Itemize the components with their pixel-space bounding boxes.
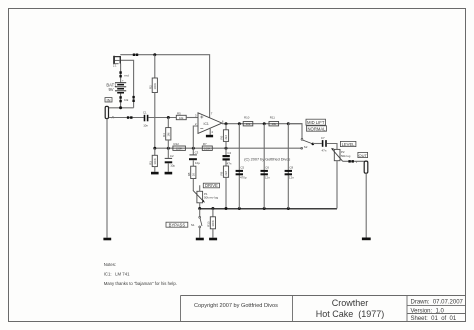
node: R6/C4 junction: [225, 147, 228, 150]
op-amp IC1: [195, 111, 224, 134]
node: R10/R11/C6: [263, 122, 266, 125]
copyright note on schematic: [244, 157, 290, 161]
svg-text:C7: C7: [321, 136, 325, 140]
svg-text:R13: R13: [207, 221, 211, 227]
BYPASS label: [166, 222, 188, 227]
svg-text:10k: 10k: [179, 116, 184, 120]
svg-text:(C) 2007 by Gottfried Divos: (C) 2007 by Gottfried Divos: [244, 157, 290, 161]
svg-text:12n: 12n: [289, 176, 294, 180]
svg-text:10k: 10k: [246, 122, 251, 126]
capacitor C2 10u: [165, 148, 176, 172]
resistor R12 220K: [173, 142, 186, 151]
ground pin 4: [206, 135, 213, 138]
svg-text:Sheet: 01 of 01: Sheet: 01 of 01: [411, 316, 457, 322]
resistor R3 100K: [148, 148, 157, 172]
title block: [181, 296, 466, 322]
capacitor C5 470p: [236, 166, 247, 180]
svg-text:S2: S2: [304, 145, 308, 149]
connector pin pair on +9V rail: [133, 54, 138, 57]
connector pin pair input: [127, 116, 133, 119]
wire sleeve to IN jack: [109, 107, 134, 109]
wire switch to C7: [313, 143, 322, 145]
svg-text:100K: 100K: [211, 220, 215, 227]
svg-text:2.1: 2.1: [113, 64, 117, 68]
wire R5 to pin 3: [186, 117, 197, 119]
svg-text:10k: 10k: [272, 122, 277, 126]
ground under R3: [151, 172, 159, 175]
wire C6 column: [263, 124, 265, 209]
resistor R5 10k: [176, 111, 186, 120]
svg-text:10µ: 10µ: [195, 161, 200, 165]
NORMAL label: [307, 126, 327, 132]
wire output row pin 6: [222, 123, 302, 125]
svg-text:R9: R9: [220, 171, 224, 175]
svg-text:R2: R2: [148, 85, 152, 89]
svg-text:220K: 220K: [176, 147, 183, 151]
potentiometer P2 50k log: [331, 148, 351, 209]
OUT jack J3: [364, 161, 368, 173]
svg-text:BYPASS: BYPASS: [169, 222, 186, 227]
wire C1 to R5: [148, 117, 176, 119]
svg-text:S1: S1: [191, 223, 195, 227]
capacitor C3 10u: [189, 148, 200, 165]
svg-text:10n: 10n: [143, 124, 148, 128]
resistor R11 10k: [269, 116, 279, 127]
svg-text:2k2: 2k2: [224, 135, 228, 140]
svg-text:C4: C4: [227, 151, 231, 155]
svg-text:Copyright 2007 by Gottfried Di: Copyright 2007 by Gottfried Divos: [194, 303, 278, 309]
switch S2: [301, 139, 314, 150]
svg-text:C3: C3: [195, 151, 199, 155]
wire DC jack sleeve return: [121, 60, 134, 108]
resistor R13 100K: [207, 209, 216, 238]
wire pin 4: [209, 128, 211, 135]
wire battery negative (blk): [120, 94, 122, 108]
svg-text:Drawn: 07.07.2007: Drawn: 07.07.2007: [411, 299, 464, 305]
node: C8 bottom: [287, 207, 290, 210]
svg-text:C8: C8: [289, 166, 293, 170]
wire +9V rail: [120, 55, 209, 118]
resistor R9: [220, 161, 229, 209]
vref row wire: [155, 147, 302, 149]
svg-text:R7: R7: [203, 142, 207, 146]
svg-text:R3: R3: [148, 161, 152, 165]
wire R11 to switch common: [288, 124, 302, 139]
node: R11/C8: [287, 122, 290, 125]
node A label: [112, 116, 115, 120]
node: R4/C2 junction: [167, 147, 170, 150]
svg-text:C2: C2: [170, 154, 174, 158]
bottom rail wire: [200, 208, 337, 210]
LEVEL label: [340, 141, 356, 146]
svg-text:IN: IN: [107, 97, 111, 102]
capacitor C8 12n: [285, 166, 295, 180]
ground under R13: [209, 238, 217, 241]
wire C5 column: [238, 124, 240, 209]
svg-text:R11: R11: [270, 116, 275, 120]
resistor R2 100K: [148, 55, 157, 149]
node: pin6/R6: [225, 122, 228, 125]
svg-text:Notes:: Notes:: [104, 262, 116, 267]
svg-text:C5: C5: [240, 166, 244, 170]
svg-text:47n: 47n: [322, 149, 327, 153]
ground under OUT jack: [362, 238, 371, 241]
DRIVE label: [203, 183, 219, 188]
wire C8 column: [287, 124, 289, 209]
battery BAT1 9V: [106, 79, 126, 94]
svg-text:100K: 100K: [153, 158, 157, 165]
svg-text:Many thanks to "bajaman" for h: Many thanks to "bajaman" for his help.: [104, 281, 177, 286]
node: C6 bottom: [263, 207, 266, 210]
capacitor C7 47n: [321, 136, 327, 152]
svg-text:R10: R10: [244, 116, 250, 120]
node: battery minus junction: [119, 106, 122, 109]
svg-text:R6: R6: [220, 135, 224, 139]
resistor R8: [187, 160, 196, 190]
connector pin pair output: [348, 160, 357, 164]
svg-text:50k rev log: 50k rev log: [204, 196, 219, 200]
node: P1 bottom: [198, 207, 201, 210]
DC power jack J1: [113, 56, 121, 68]
svg-text:6k8: 6k8: [224, 171, 228, 176]
svg-text:blk: blk: [124, 98, 128, 102]
svg-text:NORMAL: NORMAL: [308, 126, 327, 131]
capacitor C4 47n: [223, 148, 232, 165]
svg-text:50k log: 50k log: [341, 154, 351, 158]
svg-text:C1: C1: [143, 111, 147, 115]
svg-text:Version: 1.0: Version: 1.0: [411, 309, 445, 315]
ground under S1: [196, 238, 204, 241]
node: R13 top: [211, 207, 214, 210]
svg-text:DRIVE: DRIVE: [205, 183, 218, 188]
svg-text:1K: 1K: [192, 173, 196, 177]
resistor R6: [220, 124, 229, 149]
connector pin pair on sleeve return: [132, 96, 134, 102]
wire C7 to P2 top: [327, 144, 337, 150]
ground under C2: [165, 172, 173, 175]
svg-text:LEVEL: LEVEL: [342, 142, 356, 147]
wire wiper to OUT jack: [343, 160, 364, 162]
svg-text:red: red: [124, 73, 129, 77]
svg-text:R5: R5: [177, 111, 181, 115]
svg-text:Hot Cake (1977): Hot Cake (1977): [316, 309, 385, 319]
svg-text:MID LIFT: MID LIFT: [307, 120, 325, 125]
ground under IN jack: [103, 238, 111, 241]
svg-text:R8: R8: [187, 172, 191, 176]
svg-text:9V: 9V: [108, 87, 113, 92]
wire input node A: [109, 117, 144, 119]
svg-text:10µ: 10µ: [170, 164, 175, 168]
capacitor C1 10n: [143, 111, 149, 128]
svg-text:IC1: LM 741: IC1: LM 741: [104, 272, 130, 277]
wire OUT jack ground drop: [365, 173, 367, 237]
node: R2/R3 junction: [153, 147, 156, 150]
svg-text:OUT: OUT: [358, 153, 367, 158]
svg-text:Crowther: Crowther: [332, 298, 369, 308]
node: pin2/C3 junction: [192, 147, 195, 150]
svg-text:12n: 12n: [265, 176, 270, 180]
connector pin pair red: [119, 71, 129, 77]
svg-text:47n: 47n: [227, 162, 232, 166]
node: C5 bottom: [238, 207, 241, 210]
wire pin 2: [193, 126, 197, 148]
svg-text:R4: R4: [162, 133, 166, 137]
node: R9 bottom: [225, 207, 228, 210]
IN jack J2: [105, 106, 108, 118]
svg-text:C6: C6: [265, 166, 269, 170]
svg-text:R12: R12: [174, 142, 180, 146]
svg-text:100K: 100K: [153, 83, 157, 90]
svg-text:100K: 100K: [204, 147, 211, 151]
svg-text:470p: 470p: [240, 176, 247, 180]
IN label: [105, 97, 112, 102]
wire battery positive (red): [120, 64, 122, 83]
switch S1: [191, 209, 202, 238]
wire IN jack ground drop: [106, 119, 108, 238]
resistor R4 1M: [162, 118, 171, 149]
OUT label: [358, 152, 368, 157]
capacitor C6 12n: [261, 166, 271, 180]
notes text: [104, 262, 177, 286]
node: R2 tap on rail: [153, 53, 156, 56]
connector pin pair blk: [119, 96, 128, 102]
potentiometer P1 50k rev log: [193, 185, 219, 208]
svg-text:1M: 1M: [167, 132, 171, 137]
resistor R7 100K: [202, 142, 212, 151]
node: C5 top: [238, 122, 241, 125]
MID LIFT label: [306, 119, 326, 125]
resistor R10 10k: [243, 116, 253, 127]
node: R4 top junction: [167, 116, 170, 119]
svg-text:IC1: IC1: [204, 122, 209, 126]
